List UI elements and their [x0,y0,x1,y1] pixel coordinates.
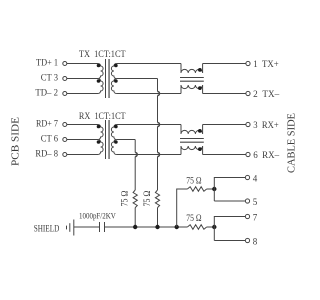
svg-text:TX 1CT:1CT: TX 1CT:1CT [79,50,126,60]
svg-text:3 RX+: 3 RX+ [253,120,279,130]
junction node R3 fanout [212,187,216,191]
transformer T2 secondary winding [111,125,116,155]
wire hop over RD+ lead [158,123,160,127]
svg-text:75 Ω: 75 Ω [186,213,201,223]
transformer T1 primary winding [98,64,103,94]
svg-text:75 Ω: 75 Ω [186,176,201,186]
wire node to pin 5 [214,200,245,202]
svg-text:PCB SIDE: PCB SIDE [10,117,21,166]
svg-text:SHIELD: SHIELD [34,224,60,234]
junction dot rail at R3 branch [175,225,179,229]
wire R3 to node [207,188,215,190]
wire T2 secondary top to L2 [116,124,181,126]
svg-text:CABLE SIDE: CABLE SIDE [286,113,297,173]
wire R4 to node [207,226,215,228]
wire T1 center tap to node [116,78,157,80]
common-mode choke L1 top winding [181,64,203,74]
wire T1 secondary top to L1 [116,63,181,65]
wire L1 to pin 2 TX- [203,93,246,95]
wire C1 to ground rail [105,226,188,228]
pin RD- 8 [35,149,66,159]
svg-text:TD+ 1: TD+ 1 [36,58,58,68]
junction dot rail at R2 [155,225,159,229]
transformer T2 primary winding [98,125,103,155]
svg-text:8: 8 [253,237,258,247]
common-mode choke L1 bottom winding [181,85,203,94]
wire rail branch up to R3 [177,189,188,227]
choke L1 bottom polarity dot [198,86,202,90]
wire T1 secondary bottom to L1 [116,93,181,95]
transformer T2 secondary polarity dots [114,125,118,144]
wire CT6 to T2 primary center tap [67,139,98,141]
wire T2 center tap to node [116,139,135,141]
svg-text:6 RX–: 6 RX– [253,150,279,160]
wire shield to C1 [74,226,100,228]
svg-text:RD+ 7: RD+ 7 [36,119,58,129]
transformer T1 primary polarity dots [97,64,101,83]
svg-text:75 Ω: 75 Ω [142,190,152,206]
transformer T2 core [106,120,110,159]
pin TD+ 1 [36,58,67,68]
wire L1 to pin 1 TX+ [203,63,246,65]
common-mode choke L2 bottom winding [181,146,203,155]
svg-text:1 TX+: 1 TX+ [253,59,279,69]
resistor R1 75ohm (RX CT to ground rail) [133,190,137,208]
choke L2 top polarity dot [198,129,202,133]
svg-text:2 TX–: 2 TX– [253,89,280,99]
wire node to pin 4 [214,178,245,202]
svg-text:5: 5 [253,197,258,207]
junction node R4 fanout [212,225,216,229]
svg-text:RD– 8: RD– 8 [35,149,58,159]
common-mode choke L1 core [180,78,204,82]
pin 8 [245,237,257,247]
pin 2 TX- [246,89,280,99]
wire RD+7 to T2 primary top [67,124,98,126]
wire node to pin 7 [214,217,245,241]
svg-text:75 Ω: 75 Ω [120,190,130,206]
common-mode choke L2 core [180,139,204,143]
pin 1 TX+ [246,59,279,69]
resistor R3 75ohm [187,187,206,192]
wire TX center-tap vertical with hops [157,79,159,191]
wire L2 to pin 3 RX+ [203,124,246,126]
wire RX center-tap vertical with hop [134,140,136,191]
pin 3 RX+ [246,120,279,130]
transformer T1 core [106,59,110,98]
wire hop over TD- lead [158,92,160,96]
wire T2 secondary bottom to L2 [116,154,181,156]
pin RD+ 7 [36,119,67,129]
pin 5 [245,197,257,207]
wire R1 to rail [134,208,136,227]
transformer T1 secondary polarity dots [114,64,118,83]
wire node to pin 8 [214,240,245,242]
svg-text:4: 4 [253,174,258,184]
svg-text:7: 7 [253,213,258,223]
pin 7 [245,213,257,223]
transformer T1 secondary winding [111,64,116,94]
svg-text:CT 6: CT 6 [41,134,59,144]
shield connector symbol [67,220,74,236]
resistor R2 75ohm (TX CT to ground rail) [155,190,159,208]
pin 6 RX- [246,150,280,160]
svg-text:1000pF/2KV: 1000pF/2KV [79,210,116,220]
transformer T2 primary polarity dots [97,125,101,144]
capacitor C1 1000pF/2KV [100,222,105,232]
svg-text:CT 3: CT 3 [41,73,59,83]
svg-text:RX 1CT:1CT: RX 1CT:1CT [79,112,126,122]
pin TD- 2 [35,88,66,98]
wire TD-2 to T1 primary bottom [67,93,98,95]
svg-text:TD– 2: TD– 2 [35,88,58,98]
choke L2 bottom polarity dot [198,147,202,151]
pin CT 3 [41,73,67,83]
pin 4 [245,174,257,184]
choke L1 top polarity dot [198,68,202,72]
wire RD-8 to T2 primary bottom [67,154,98,156]
junction dot rail at R1 [133,225,137,229]
pin CT 6 [41,134,67,144]
wire L2 to pin 6 RX- [203,154,246,156]
resistor R4 75ohm [187,225,206,230]
common-mode choke L2 top winding [181,125,203,135]
wire hop over RD- lead [158,153,160,157]
wire TD+1 to T1 primary top [67,63,98,65]
wire R2 to rail [157,208,159,227]
wire hop over RD- lead [135,153,137,157]
wire CT3 to T1 primary center tap [67,78,98,80]
